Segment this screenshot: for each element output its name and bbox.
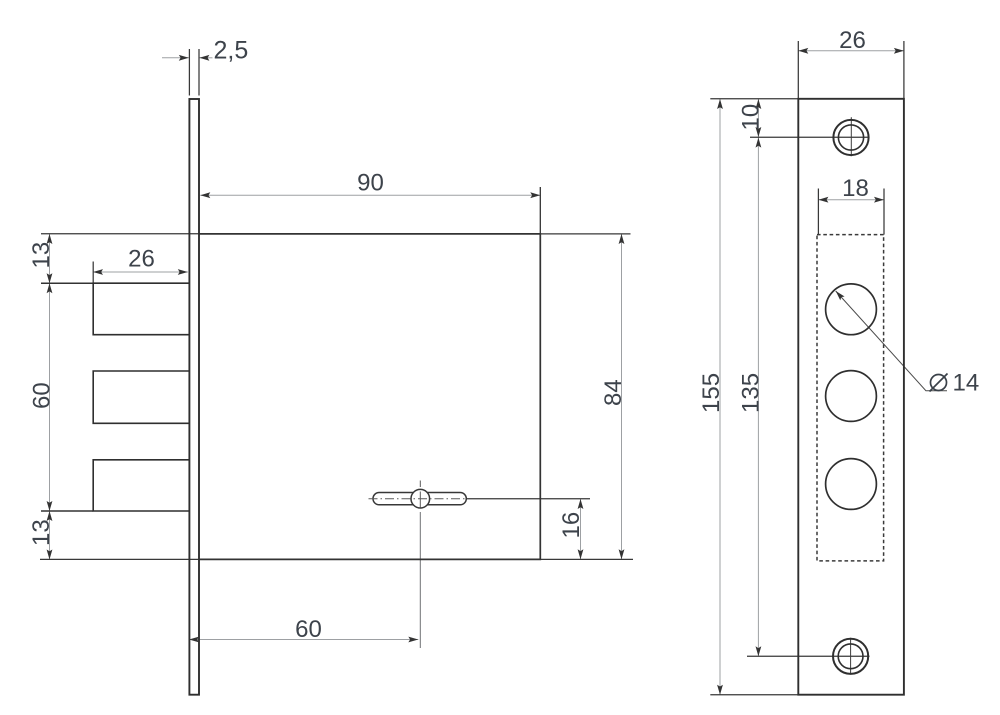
bottom screw crosshair vertical [850, 638, 852, 675]
dim line 18 [818, 199, 884, 201]
svg-text:2,5: 2,5 [214, 37, 249, 65]
bolt1 top extension [41, 282, 93, 284]
arrow 90 left [200, 192, 210, 198]
arrows right view [717, 48, 904, 695]
26 extension [92, 262, 94, 284]
arrow 2,5 right [199, 55, 209, 61]
svg-text:84: 84 [600, 379, 627, 406]
arrow 18 left [818, 197, 828, 203]
arrow 16 up [578, 499, 584, 509]
plate top edge extension left (155) [710, 98, 798, 100]
body top extension left [41, 233, 199, 235]
label 13 top [28, 242, 55, 269]
label 10 [738, 104, 765, 131]
svg-text:16: 16 [558, 512, 585, 539]
arrow 13 top down [47, 273, 53, 283]
extension lines right view [710, 41, 904, 695]
body top extension right [540, 233, 630, 235]
18 extensions [817, 189, 819, 235]
plate side extensions up (26) [797, 41, 799, 99]
svg-text:18: 18 [842, 175, 869, 202]
16 connector from keyhole [466, 498, 590, 500]
label 60 bottom [295, 616, 322, 643]
label 26 (left view) [128, 246, 155, 273]
dim line 10 + 135 [757, 99, 759, 656]
arrow 60 bottom right [408, 637, 418, 643]
arrow 13 bottom up [47, 511, 53, 521]
top screw connector horizontal [750, 136, 870, 138]
deadbolt 2 (middle) [93, 371, 188, 423]
bolt hole circle 1 [826, 284, 877, 335]
label 26 (right view) [839, 27, 866, 54]
keyhole boss circle [411, 489, 430, 508]
dashed cutout rectangle [817, 235, 884, 561]
arrow 60 up [47, 283, 53, 293]
top screw crosshair vertical [850, 117, 852, 156]
top screw hole outer [833, 120, 868, 155]
arrow 84 down [619, 549, 625, 559]
svg-text:10: 10 [738, 104, 765, 131]
svg-text:90: 90 [357, 170, 384, 197]
keyhole centerline horizontal dash-dot [369, 498, 467, 500]
leader line for diameter 14 [836, 291, 947, 391]
arrow 135 up [756, 138, 762, 148]
label 2,5 [214, 37, 249, 65]
svg-text:14: 14 [953, 370, 980, 397]
keyhole slot (side view) [373, 493, 466, 505]
extension lines left view [40, 49, 633, 559]
dim line 155 [719, 99, 721, 695]
svg-text:26: 26 [128, 246, 155, 273]
arrow 155 up [717, 99, 723, 109]
deadbolt 1 (top) [93, 283, 188, 335]
svg-text:60: 60 [29, 382, 56, 409]
bolt3 bottom extension [41, 510, 93, 512]
label 14 [953, 370, 980, 397]
top screw hole inner [838, 125, 863, 150]
deadbolt 3 (bottom) [93, 460, 188, 511]
dim line 60 (bottom backset) [189, 639, 418, 641]
keyhole centerline vertical dashes [419, 481, 421, 508]
arrow 26 right [178, 269, 188, 275]
svg-text:13: 13 [28, 519, 55, 546]
svg-text:135: 135 [738, 373, 765, 413]
arrows left view [47, 55, 625, 643]
dim line 26 (right view) [798, 50, 904, 52]
dim line 90 [200, 194, 540, 196]
label 13 bottom [28, 519, 55, 546]
svg-text:60: 60 [295, 616, 322, 643]
label 135 [738, 373, 765, 413]
svg-text:13: 13 [28, 242, 55, 269]
dim line 84 [621, 234, 623, 559]
arrow 135 down [756, 646, 762, 656]
label 16 [558, 512, 585, 539]
dim line 13/60/13 chain (left) [49, 234, 51, 560]
bolt hole circle 3 [826, 459, 877, 510]
label 155 [698, 373, 725, 413]
arrow 13 top up [47, 234, 53, 244]
body bottom extension left [40, 558, 199, 560]
faceplate extension for 2,5 [188, 49, 190, 96]
arrow 10 down [756, 127, 762, 137]
body right edge extension up to 90 dim [539, 187, 541, 234]
label diameter symbol [930, 374, 948, 392]
arrow 2,5 left [179, 55, 189, 61]
arrow 155 down [717, 685, 723, 695]
arrow 26 left [93, 269, 103, 275]
arrow 10 up [756, 99, 762, 109]
arrow 13 bottom down [47, 550, 53, 560]
bottom screw hole inner [838, 644, 863, 669]
arrow 90 right [530, 192, 540, 198]
arrow 60 bottom left [189, 637, 199, 643]
arrow leader diameter 14 [836, 291, 845, 300]
bolt hole circle 2 [826, 371, 877, 422]
bottom screw connector horizontal [747, 655, 870, 657]
bottom screw hole outer [833, 639, 868, 674]
dim line 26 (left view) [93, 271, 188, 273]
arrow 16 down [578, 549, 584, 559]
dim line 16 [580, 499, 582, 559]
arrow 26R right [894, 48, 904, 54]
keyhole centerline vertical (down to 60 dim) [419, 512, 421, 648]
label 84 [600, 379, 627, 406]
dim line 2,5 [162, 57, 213, 59]
lock body outline [199, 234, 540, 560]
faceplate (front view) [798, 99, 904, 695]
label 90 [357, 170, 384, 197]
svg-text:26: 26 [839, 27, 866, 54]
label 60 left [29, 382, 56, 409]
arrow 84 up [619, 234, 625, 244]
arrow 18 right [874, 197, 884, 203]
faceplate (side view, thin vertical plate) [189, 99, 199, 695]
body bottom extension right [540, 558, 633, 560]
plate bottom edge extension left (155) [710, 694, 798, 696]
svg-text:155: 155 [698, 373, 725, 413]
label 18 [842, 175, 869, 202]
arrow 60 down [47, 501, 53, 511]
arrow 26R left [798, 48, 808, 54]
